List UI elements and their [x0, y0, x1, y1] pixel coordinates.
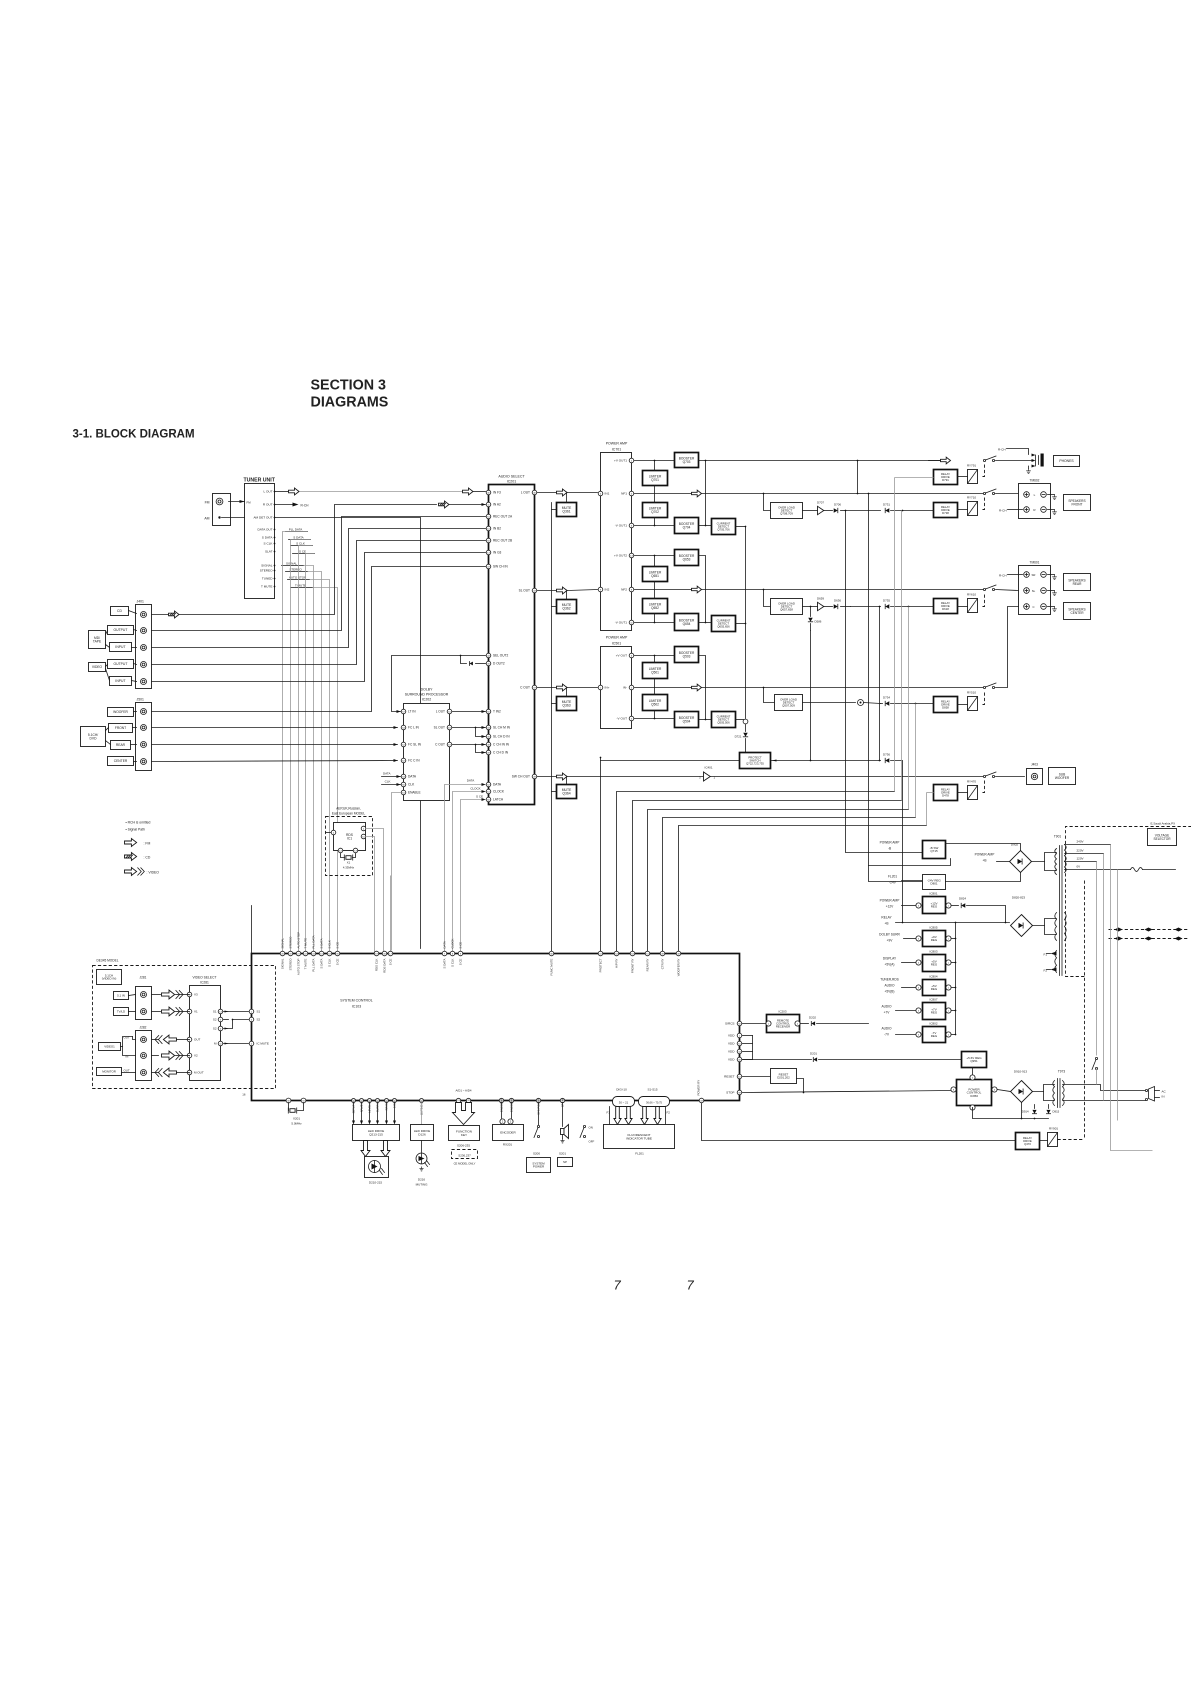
- svg-text:J401: J401: [137, 600, 144, 604]
- svg-text:7: 7: [614, 1278, 622, 1293]
- svg-text:+5V(B): +5V(B): [884, 990, 894, 994]
- svg-text:IC1: IC1: [347, 836, 352, 840]
- pin 46 IN F3: [486, 490, 491, 495]
- svg-text:220V: 220V: [1077, 849, 1084, 853]
- booster Q503: [675, 647, 699, 663]
- svg-text:D914: D914: [1022, 1110, 1029, 1114]
- sys power pin: [536, 1098, 540, 1102]
- coil T973 sec: [1063, 1081, 1065, 1106]
- pin RDS CLK: [374, 951, 379, 956]
- pin T MUTE: [303, 951, 308, 956]
- svg-text:+V OUT: +V OUT: [616, 654, 627, 658]
- svg-text:IC MUTE: IC MUTE: [257, 1042, 269, 1046]
- label OUTPUT: [108, 626, 134, 635]
- system control IC103 box: [252, 954, 740, 1101]
- wire SEL OUT2 loop to LT IN: [392, 656, 486, 712]
- crystal X201: [286, 1098, 291, 1103]
- rail from NF junction: [869, 494, 951, 866]
- svg-text:RDS DATA: RDS DATA: [383, 958, 387, 972]
- svg-text:+5V(A): +5V(A): [884, 963, 894, 967]
- svg-text:T IN2: T IN2: [493, 710, 501, 714]
- svg-text:D915: D915: [1053, 1110, 1060, 1114]
- svg-text:RX201: RX201: [503, 1143, 513, 1147]
- svg-text:RY710: RY710: [967, 496, 976, 500]
- diodes D914 D915: [1021, 1103, 1023, 1119]
- svg-text:IC201: IC201: [507, 480, 517, 484]
- svg-text:REAR: REAR: [116, 743, 126, 747]
- wire relay ctl D791: [895, 477, 934, 479]
- MONITOR box: [97, 1068, 122, 1076]
- headphone feed wire: [706, 460, 941, 462]
- svg-text:IC281: IC281: [200, 981, 209, 985]
- svg-text:DOLBY SURR: DOLBY SURR: [879, 933, 900, 937]
- svg-text:FC L IN: FC L IN: [408, 726, 420, 730]
- pin S CE: [335, 951, 340, 956]
- speaker symbol: [561, 1125, 569, 1139]
- pin 45 SL CH D IN: [486, 734, 491, 739]
- svg-text:REAR RY: REAR RY: [646, 958, 650, 971]
- svg-text:D738: D738: [942, 511, 949, 515]
- svg-text:POWER: POWER: [533, 1165, 545, 1169]
- svg-text:RESET: RESET: [724, 1075, 734, 1079]
- current detect Q705,706: [712, 519, 736, 535]
- svg-text:S CLK: S CLK: [328, 940, 332, 948]
- svg-text:AUTO STOP: AUTO STOP: [297, 958, 301, 975]
- diode D636: [834, 604, 838, 608]
- svg-text:SW CH OUT: SW CH OUT: [512, 775, 530, 779]
- svg-text:S1: S1: [257, 1010, 261, 1014]
- wire tuner signal to system control: [304, 566, 314, 954]
- coil T973 primary: [1053, 1081, 1055, 1106]
- svg-text:S DATA: S DATA: [443, 958, 447, 968]
- svg-text:-V OUT: -V OUT: [617, 717, 628, 721]
- tag S DATA: [289, 539, 311, 541]
- wire bridge D902 to primary: [1032, 853, 1057, 862]
- LED drive Q213-215: [353, 1125, 400, 1141]
- relay RY470: [968, 786, 978, 800]
- wide arrow to function key: [453, 1103, 475, 1125]
- svg-text:T MUTE: T MUTE: [304, 958, 308, 969]
- sub woofer box: [1049, 768, 1076, 785]
- svg-text:IN B2: IN B2: [493, 527, 501, 531]
- svg-text:4.33MHz: 4.33MHz: [343, 866, 355, 870]
- label INPUT: [110, 643, 132, 652]
- svg-text:D801: D801: [930, 882, 938, 886]
- PHONES box: [1054, 456, 1080, 467]
- svg-text:Q213-215: Q213-215: [369, 1132, 383, 1136]
- svg-text:S206-235: S206-235: [457, 1144, 470, 1148]
- svg-text:Q705,706: Q705,706: [717, 528, 730, 532]
- svg-text:: FM: : FM: [144, 842, 151, 846]
- speakers center box: [1064, 603, 1091, 620]
- VIDEO1 fork: [121, 1046, 123, 1048]
- pin S CLK: [450, 951, 455, 956]
- limiter Q501: [643, 663, 668, 679]
- svg-text:DATA: DATA: [443, 941, 447, 948]
- svg-text:FUNC MUTE: FUNC MUTE: [550, 958, 554, 975]
- pin S DATA: [442, 951, 447, 956]
- svg-text:DOLBY: DOLBY: [421, 688, 434, 692]
- arrows to FL tube: [614, 1107, 621, 1125]
- label INPUT: [110, 677, 132, 686]
- svg-text:AUDIO: AUDIO: [881, 1005, 892, 1009]
- svg-text:Q651: Q651: [651, 574, 659, 578]
- svg-text:VIDEO1: VIDEO1: [104, 1045, 115, 1049]
- svg-text:REG: REG: [931, 1034, 938, 1038]
- tag SIGNAL: [282, 565, 304, 567]
- wire dolby C OUT: [453, 744, 486, 746]
- svg-text:IN G3: IN G3: [493, 551, 502, 555]
- svg-text:D736: D736: [883, 753, 890, 757]
- junction symbol: [858, 700, 864, 706]
- svg-text:Q653: Q653: [683, 557, 691, 561]
- svg-text:-24V: -24V: [889, 881, 897, 885]
- relay RY710: [968, 502, 978, 516]
- svg-text:0V: 0V: [1077, 865, 1081, 869]
- svg-text:C OUT: C OUT: [520, 686, 530, 690]
- svg-text:Q951: Q951: [970, 1059, 978, 1063]
- svg-text:RDS CLK: RDS CLK: [375, 958, 379, 971]
- pin 50 T IN2: [486, 709, 491, 714]
- svg-text:IN1: IN1: [605, 492, 610, 496]
- svg-text:REG: REG: [931, 905, 938, 909]
- svg-text:SL OUT: SL OUT: [519, 589, 530, 593]
- mute control line: [551, 503, 553, 954]
- svg-text:PLL DATA: PLL DATA: [312, 935, 316, 948]
- R-CH arrowhead: [275, 504, 293, 506]
- svg-text:TUNER UNIT: TUNER UNIT: [244, 478, 276, 484]
- svg-text:+B: +B: [885, 922, 889, 926]
- wires IC701 group2: [635, 555, 675, 557]
- svg-text:Q501: Q501: [651, 670, 659, 674]
- svg-text:: VIDEO: : VIDEO: [147, 871, 160, 875]
- svg-text:X1: X1: [347, 861, 351, 865]
- video arrows J281: [152, 994, 161, 996]
- 5.1CH video in box: [97, 970, 122, 985]
- svg-text:SIGNAL: SIGNAL: [261, 564, 273, 568]
- svg-text:Q652: Q652: [651, 606, 659, 610]
- svg-text:FRONT: FRONT: [1072, 502, 1083, 506]
- svg-text:S236,237: S236,237: [458, 1153, 471, 1157]
- svg-text:REG: REG: [931, 963, 938, 967]
- svg-text:H/P RY: H/P RY: [615, 958, 619, 968]
- relay drive D791: [934, 470, 958, 485]
- svg-text:L OUT: L OUT: [436, 710, 445, 714]
- svg-text:IC103: IC103: [352, 1005, 361, 1009]
- rail -B from D706: [846, 511, 903, 853]
- coil T901 aux: [1055, 951, 1057, 973]
- fuse: [1131, 868, 1143, 872]
- svg-text:RECEIVER: RECEIVER: [776, 1025, 790, 1029]
- mute Q362: [557, 600, 577, 614]
- svg-text:WOOFER RY: WOOFER RY: [677, 958, 681, 976]
- svg-text:Q363: Q363: [562, 704, 570, 708]
- svg-text:S DATA: S DATA: [320, 938, 324, 948]
- arrow FM at audio select: [463, 488, 474, 495]
- over load detect Q708,709: [764, 494, 771, 511]
- svg-text:-V OUT1: -V OUT1: [615, 621, 627, 625]
- svg-text:+V OUT1: +V OUT1: [614, 459, 627, 463]
- svg-text:D910-913: D910-913: [1014, 1070, 1028, 1074]
- svg-text:OUT: OUT: [194, 1038, 201, 1042]
- diode D706: [834, 508, 838, 512]
- over load detect Q657,658: [764, 590, 771, 607]
- svg-text:MONITOR: MONITOR: [102, 1070, 116, 1074]
- wire SW CH OUT to sub: [711, 776, 985, 778]
- svg-text:SURROUND PROCESSOR: SURROUND PROCESSOR: [405, 693, 449, 697]
- pin 43 SL OUT: [532, 588, 537, 593]
- switch rear: [983, 585, 996, 591]
- booster Q703: [675, 453, 699, 468]
- label WOOFER: [108, 708, 134, 717]
- svg-text:IC804: IC804: [929, 975, 937, 979]
- svg-text:IC801: IC801: [929, 892, 937, 896]
- svg-text:T MUTE: T MUTE: [304, 938, 308, 949]
- wire CD to IN A2: [180, 505, 437, 615]
- svg-text:DATA: DATA: [493, 783, 502, 787]
- wire current detect to protect: [745, 527, 747, 719]
- diode D586: [810, 607, 812, 617]
- svg-text:D202: D202: [809, 1016, 816, 1020]
- svg-text:IC803: IC803: [929, 950, 937, 954]
- pin 62 DATA: [486, 782, 491, 787]
- svg-text:IC203: IC203: [778, 1010, 786, 1014]
- svg-text:VDD: VDD: [728, 1042, 735, 1046]
- svg-text:Q704: Q704: [683, 525, 691, 529]
- svg-text:5.1 IN: 5.1 IN: [117, 994, 125, 998]
- pin SIGNAL: [280, 951, 285, 956]
- svg-text:VIDEO SELECT: VIDEO SELECT: [192, 976, 216, 980]
- pin 10 IN B2: [486, 526, 491, 531]
- tuner unit box: [245, 484, 275, 599]
- wire FRONT RY ctl: [633, 801, 902, 954]
- booster Q504: [675, 712, 699, 728]
- pin 60 LATCH: [486, 797, 491, 802]
- svg-text:AUDIO: AUDIO: [884, 984, 895, 988]
- svg-text:FRONT RY: FRONT RY: [631, 958, 635, 973]
- svg-text:RY901: RY901: [1049, 1127, 1058, 1131]
- wire mute ctl: [552, 509, 557, 511]
- power amp IC701 box: [601, 453, 632, 631]
- svg-text:240V: 240V: [1077, 840, 1084, 844]
- svg-text:IC202: IC202: [422, 698, 431, 702]
- arrow FM L OUT: [275, 491, 289, 493]
- relay RY510: [968, 697, 978, 711]
- wire REAR RY ctl: [648, 810, 909, 954]
- svg-text:PLL DATA: PLL DATA: [312, 958, 316, 971]
- svg-text:Q722,723,735: Q722,723,735: [746, 762, 764, 766]
- rail D586 down: [810, 631, 812, 761]
- svg-text:DATA: DATA: [383, 772, 391, 776]
- pin WOOFER RY: [676, 951, 681, 956]
- svg-text:7: 7: [687, 1278, 695, 1293]
- S1 S2 pins: [218, 1009, 223, 1014]
- svg-text:SW CH IN: SW CH IN: [493, 565, 508, 569]
- wire CENTER to FC C IN: [152, 761, 398, 762]
- wires IC701 group1: [635, 460, 675, 462]
- wire FM to tuner: [229, 501, 245, 503]
- svg-text:CLOCK: CLOCK: [451, 938, 455, 948]
- svg-text:S DATA: S DATA: [262, 536, 274, 540]
- diode D202: [811, 1021, 815, 1025]
- diode D OUT2: [476, 663, 486, 665]
- svg-text:CLOCK: CLOCK: [493, 790, 505, 794]
- svg-text:FM: FM: [205, 501, 210, 505]
- label OUTPUT: [108, 660, 134, 669]
- svg-text:E,Saudi Arabia,PX: E,Saudi Arabia,PX: [1151, 822, 1176, 826]
- svg-text:DISPLAY: DISPLAY: [883, 957, 897, 961]
- svg-text:REG: REG: [931, 1011, 938, 1015]
- pin PLL DATA: [311, 951, 316, 956]
- voltage selector box: [1148, 829, 1177, 846]
- booster Q704: [675, 518, 699, 534]
- svg-text:Q702: Q702: [651, 510, 659, 514]
- wire ENABLE down: [392, 793, 401, 951]
- svg-text:+7V: +7V: [884, 1011, 891, 1015]
- svg-text:3-1. BLOCK DIAGRAM: 3-1. BLOCK DIAGRAM: [73, 429, 195, 441]
- 5.1 IN box: [114, 992, 129, 1000]
- svg-text:IC401: IC401: [704, 766, 712, 770]
- svg-text:D659: D659: [817, 597, 824, 601]
- svg-text:X201: X201: [293, 1117, 300, 1121]
- svg-text:Q504: Q504: [683, 719, 691, 723]
- svg-text:POWER AMP: POWER AMP: [975, 853, 995, 857]
- relay drive D738: [934, 503, 958, 518]
- svg-text:120V: 120V: [1077, 857, 1084, 861]
- LED D216: [416, 1153, 427, 1164]
- svg-text:AM: AM: [204, 517, 209, 521]
- svg-text:SL CH D IN: SL CH D IN: [493, 735, 510, 739]
- svg-text:V1: V1: [194, 1010, 198, 1014]
- svg-text:WOOFER: WOOFER: [113, 710, 128, 714]
- svg-text:V3: V3: [194, 993, 198, 997]
- svg-text:STOP: STOP: [726, 1091, 734, 1095]
- wire RDS pin2 down: [367, 829, 384, 954]
- RESET pin: [737, 1074, 742, 1079]
- wire WOOFER RY ctl: [679, 826, 927, 954]
- svg-text:RY470: RY470: [967, 780, 976, 784]
- svg-text:SL CH M IN: SL CH M IN: [493, 726, 511, 730]
- wire C OUT row: [538, 687, 557, 689]
- wire tuner signal to system control: [291, 540, 311, 954]
- pin RDS DATA: [382, 951, 387, 956]
- svg-text:IC807: IC807: [929, 998, 937, 1002]
- reg output bus: [955, 923, 957, 1035]
- tag PLL DATA: [286, 531, 308, 533]
- diode D736: [885, 758, 889, 762]
- svg-text:POWER AMP: POWER AMP: [606, 442, 628, 446]
- svg-text:D791: D791: [942, 478, 949, 482]
- video arrows J282: [152, 1039, 159, 1041]
- svg-text:S2: S2: [213, 1027, 217, 1031]
- pin FRONT RY: [630, 951, 635, 956]
- svg-text:D721: D721: [735, 735, 742, 739]
- svg-text:Q708,709: Q708,709: [780, 512, 793, 516]
- wire sc left up: [251, 906, 253, 954]
- current detect Q505,506: [712, 712, 736, 728]
- svg-text:STEREO: STEREO: [289, 936, 293, 949]
- svg-text:S1-S15: S1-S15: [647, 1088, 657, 1092]
- svg-text:RELAY: RELAY: [881, 916, 892, 920]
- amp D659: [818, 602, 824, 610]
- svg-text:AUDIO SELECT: AUDIO SELECT: [498, 475, 525, 479]
- gray verticals right: [1096, 862, 1098, 1056]
- rail phones row down: [929, 460, 941, 462]
- svg-text:AUDIO: AUDIO: [881, 1027, 892, 1031]
- pin 44 SEL OUT2: [486, 653, 491, 658]
- diode D731: [846, 510, 881, 512]
- wire mute ctl: [552, 606, 557, 608]
- svg-text:DIGI-10: DIGI-10: [616, 1088, 627, 1092]
- limiter Q502: [643, 695, 668, 711]
- encoder box: [493, 1125, 524, 1141]
- svg-text:-7V: -7V: [884, 1033, 890, 1037]
- switch front: [983, 489, 996, 495]
- wire WOOFER to SW CH IN: [152, 567, 486, 712]
- svg-text:SIRCS: SIRCS: [725, 1022, 734, 1026]
- svg-text:OUTPUT: OUTPUT: [114, 628, 128, 632]
- diode D734: [885, 701, 889, 705]
- wire FRONT to FC L IN: [152, 727, 398, 729]
- STOP pin: [737, 1090, 742, 1095]
- wire jack to audio select: [152, 529, 486, 648]
- wire tuner signal to system control: [308, 572, 322, 954]
- protect switch box: [740, 753, 771, 769]
- svg-text:AEP,UK,Russian,: AEP,UK,Russian,: [336, 807, 361, 811]
- svg-text:NF2: NF2: [621, 588, 627, 592]
- wire STOP to IC950: [743, 1091, 951, 1093]
- svg-text:: CD: : CD: [144, 856, 151, 860]
- wire RDS pin4 left: [326, 832, 331, 834]
- mute Q361: [557, 503, 577, 517]
- svg-text:TAPE: TAPE: [93, 639, 102, 643]
- LED drive D126: [411, 1125, 434, 1141]
- switch center: [983, 683, 996, 689]
- mute Q364: [557, 785, 577, 799]
- pin AUTO STOP: [296, 951, 301, 956]
- svg-text:Q701: Q701: [651, 478, 659, 482]
- pin S DATA: [319, 951, 324, 956]
- svg-text:A/D1 ~ A/D4: A/D1 ~ A/D4: [456, 1089, 472, 1093]
- svg-text:KEY: KEY: [461, 1133, 467, 1137]
- wire POWER RY: [702, 1104, 1016, 1141]
- label CENTER: [108, 757, 134, 766]
- pin S CE: [388, 951, 393, 956]
- svg-text:C OUT: C OUT: [435, 743, 445, 747]
- wire dolby SL OUT: [453, 727, 486, 729]
- svg-text:ENABLE: ENABLE: [408, 791, 421, 795]
- svg-text:V2: V2: [194, 1054, 198, 1058]
- power amp IC501 box: [601, 647, 632, 729]
- svg-text:IN F3: IN F3: [493, 491, 501, 495]
- FM/AM antenna box: [213, 494, 231, 526]
- svg-text:DATA: DATA: [467, 779, 475, 783]
- wire L OUT row: [538, 492, 557, 494]
- dashed signal arrows: [1109, 929, 1189, 931]
- label MD/TAPE: [89, 631, 106, 649]
- svg-text:DATA: DATA: [408, 775, 417, 779]
- wire RDS pin16 down: [361, 834, 366, 839]
- wire L OUT to audio select: [300, 491, 463, 493]
- booster Q653: [675, 550, 699, 566]
- svg-text:IC701: IC701: [612, 448, 621, 452]
- wire to mute: [566, 493, 568, 503]
- svg-text:STEREO: STEREO: [260, 569, 273, 573]
- svg-text:POWER AMP: POWER AMP: [880, 841, 900, 845]
- svg-text:R-CH: R-CH: [999, 574, 1007, 578]
- arrow CD from CD jack: [152, 614, 169, 616]
- svg-text:S CE: S CE: [459, 942, 463, 949]
